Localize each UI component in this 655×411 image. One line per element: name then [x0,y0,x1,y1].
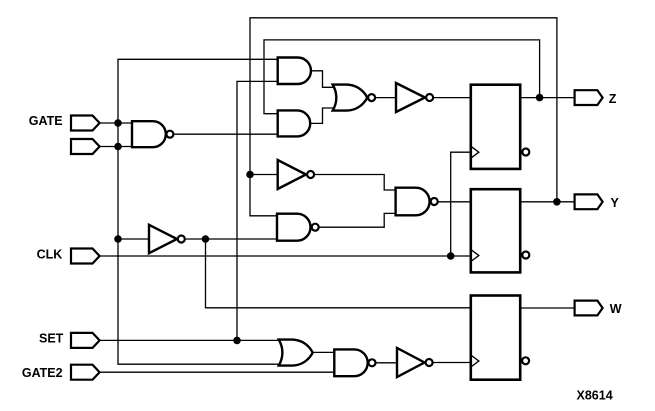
wire inverter U6 input stub [250,174,278,176]
wire AND U3 output to NOR U4 input B [310,108,335,123]
junction node Y feedback at U6 input [246,171,254,179]
NAND gate U1 [132,121,173,147]
junction node SET [233,337,241,345]
wire FF1 clock riser from CLK net [451,152,471,256]
AND gate U3 [278,110,311,136]
flip-flop FF2 [471,189,530,272]
wire NAND U1 output to AND U3 input B [174,133,278,135]
svg-text:GATE: GATE [29,114,63,128]
wire FF3 Q to output W [520,307,574,309]
junction node inverter U9 input [114,235,122,243]
wire GATE2 input to NAND U11 input B [100,371,335,373]
wire Y feedback: node Y up over top to NAND U7 input A [250,18,557,216]
wire GATE top input to NAND U1 [100,122,132,124]
wire FF2 Q to output Y [520,201,574,203]
output port Z [575,90,603,105]
wire net GATE vertical: AND U2 input A, down to OR U10 input B [118,59,281,364]
AND gate U2 [278,58,311,85]
input port CLK [71,249,100,264]
junction node GATE bottom [114,143,122,151]
input port GATE [71,116,100,131]
inverter U12 [397,348,433,377]
svg-text:Y: Y [611,196,620,210]
wire NAND U7 output to NAND U8 input B [319,213,395,227]
junction node inverter U9 output [202,235,210,243]
NAND gate U11 [334,349,375,376]
output port Y [575,194,603,209]
input port SET [71,333,100,348]
svg-text:X8614: X8614 [577,389,613,403]
wire NAND U11 output to inverter U12 [376,362,397,364]
svg-text:Z: Z [609,92,617,106]
wire inverter U6 output to NAND U8 input A [315,175,396,191]
flip-flop FF3 [471,296,529,380]
wire net SET vertical: AND U2 input B riser from SET node [237,81,278,340]
wire inverter U9 output to NAND U7 input B [186,238,277,240]
inverter U5 [396,83,433,112]
junction node Y [553,198,561,206]
svg-text:W: W [610,302,622,316]
junction node GATE top [114,119,122,127]
input port GATE pair (unlabeled) [71,139,100,154]
wire FF1 Q to output Z [520,97,574,99]
output port W [575,301,603,316]
NOR gate U4 [333,85,375,111]
wire NOR U4 output to inverter U5 [376,97,396,99]
wire inverter U5 output to FF1 D [434,97,471,99]
wire inverter U9 input stub from GATE net [118,238,149,240]
NAND gate U7 [277,214,319,241]
svg-text:CLK: CLK [37,248,63,262]
wire node CLKINV down to FF3 D input [206,239,471,308]
junction node CLK at FF clocks [447,252,455,260]
wire NAND U8 output to FF2 D [438,201,470,203]
wire Z feedback: node Z up over top to AND U3 input A [264,40,540,114]
wire GATE bottom input to NAND U1 [100,146,132,148]
wire inverter U12 output to FF3 clock [434,362,471,364]
NAND gate U8 [396,188,438,216]
wire CLK input to FF2 clock [100,255,471,257]
svg-text:SET: SET [39,332,64,346]
input port GATE2 [71,365,100,380]
wire OR U10 output to NAND U11 input A [313,351,335,353]
flip-flop FF1 [471,85,530,169]
OR gate U10 [279,340,313,366]
wire SET input to OR U10 input A [100,339,281,341]
inverter U9 [149,225,185,253]
svg-text:GATE2: GATE2 [22,366,63,380]
inverter U6 [278,160,314,189]
junction node Z [536,94,544,102]
wire AND U2 output to NOR U4 input A [311,71,336,88]
